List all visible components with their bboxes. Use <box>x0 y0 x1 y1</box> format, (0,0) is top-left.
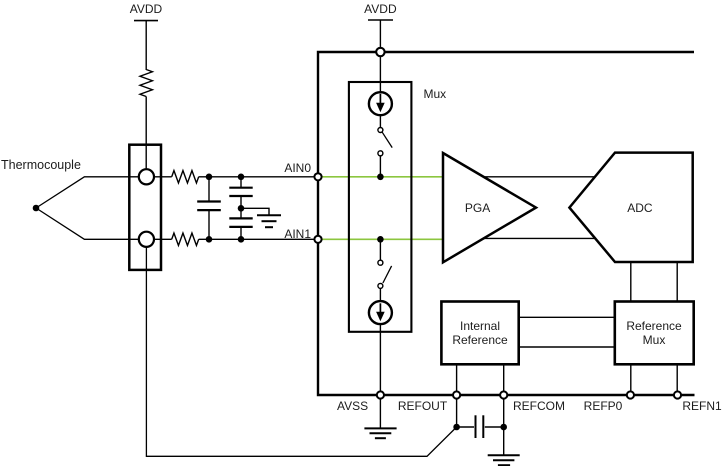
Reference Mux box U3 <box>615 302 694 365</box>
connector block J1 <box>129 145 161 270</box>
wire node to REFCOM pin <box>503 399 505 427</box>
label AIN0 <box>231 162 311 174</box>
power symbol AVDD (right) <box>368 19 393 21</box>
wire pin to current source I1 <box>379 56 381 94</box>
wire thermocouple lead - <box>36 208 140 239</box>
label PGA <box>418 202 538 214</box>
current source I2 <box>369 301 392 324</box>
wire mid node to ground G1 <box>241 208 269 215</box>
ground G1 <box>257 215 281 227</box>
node dot R2/C1 <box>206 174 213 181</box>
pin REFN1 <box>674 391 681 398</box>
wire R3 to pin AIN1 <box>199 238 316 240</box>
wire C4 to REFCOM node <box>485 426 504 428</box>
wire PGA to ADC (bottom) <box>483 237 596 239</box>
capacitor C4 <box>476 415 484 438</box>
node thermocouple junction <box>33 205 40 212</box>
pin AIN1 <box>314 236 321 243</box>
capacitor C3 (mid to AIN1) <box>229 208 252 239</box>
wire IntRef to RefMux (top) <box>519 316 615 318</box>
pin AVDD <box>376 48 384 56</box>
label Internal Reference <box>420 320 540 332</box>
wire IntRef to RefMux (bottom) <box>519 346 615 348</box>
resistor R3 <box>172 233 199 245</box>
label Reference Mux <box>594 320 714 332</box>
label AVSS <box>293 400 413 412</box>
ADC block <box>569 153 692 262</box>
node dot REFCOM/C4 <box>500 424 507 431</box>
wire terminal to R3 <box>154 238 172 240</box>
wire I2 to AVSS pin <box>379 324 381 395</box>
ground G3 <box>488 455 520 465</box>
label REFCOM <box>479 400 599 412</box>
label AVDD (left power) <box>86 3 206 15</box>
pin AIN0 <box>314 173 321 180</box>
node dot C3 bottom <box>238 236 245 243</box>
pin AVSS <box>377 391 384 398</box>
wire RefMux to REFN1 <box>676 364 678 395</box>
PGA amplifier triangle <box>443 153 536 262</box>
wire AVDD to resistor R1 <box>145 21 147 70</box>
chip outline (open right side) <box>318 52 695 395</box>
node dot AIN1/mux <box>377 236 384 243</box>
wire R1 to connector <box>145 97 147 171</box>
switch S1 <box>378 115 392 177</box>
wire R2 to pin AIN0 <box>199 176 316 178</box>
wire PGA to ADC (top) <box>483 176 596 178</box>
wire AVSS to ground G2 <box>379 399 381 429</box>
pin REFOUT <box>453 391 460 398</box>
label ADC <box>580 202 700 214</box>
label AIN1 <box>231 228 311 240</box>
wire IntRef to REFOUT <box>456 364 458 395</box>
capacitor C1 (differential) <box>197 177 221 240</box>
label REFN1 <box>642 400 722 412</box>
wire AVDD to pin <box>379 20 381 49</box>
wire ADC to Reference Mux (left) <box>630 262 632 302</box>
wire connector bottom return <box>146 247 456 456</box>
net AIN0 analog path (green) <box>322 176 444 178</box>
mux box <box>349 82 412 332</box>
net AIN1 analog path (green) <box>322 238 444 240</box>
current source I1 <box>369 92 392 115</box>
label REFP0 <box>543 400 663 412</box>
power symbol AVDD (left) <box>134 20 158 22</box>
wire ADC to Reference Mux (right) <box>676 262 678 302</box>
terminal circle (bottom) <box>139 232 154 247</box>
node dot REFOUT/C4 <box>453 424 460 431</box>
node dot R3/C1 <box>206 236 213 243</box>
wire dot to C4 <box>457 426 474 428</box>
wire IntRef to REFCOM <box>503 364 505 395</box>
wire node to ground G3 <box>503 427 505 455</box>
label REFOUT <box>363 400 483 412</box>
Internal Reference box U2 <box>441 302 518 365</box>
ground G2 <box>364 428 396 438</box>
node dot C2 top <box>238 174 245 181</box>
wire RefMux to REFP0 <box>630 364 632 395</box>
node dot AIN0/mux <box>377 174 384 181</box>
resistor R2 <box>172 171 199 183</box>
wire terminal to R2 <box>154 176 172 178</box>
label Mux <box>424 88 447 100</box>
label AVDD (right power) <box>320 3 440 15</box>
label Thermocouple <box>1 159 81 172</box>
terminal circle (top) <box>139 169 154 184</box>
resistor R1 (pull-up) <box>140 70 152 97</box>
capacitor C2 (AIN0 to mid) <box>229 177 252 209</box>
pin REFP0 <box>627 391 634 398</box>
switch S2 <box>378 239 392 300</box>
node dot C2/C3 mid <box>238 205 245 212</box>
wire REFOUT down <box>456 399 458 427</box>
pin REFCOM <box>500 391 507 398</box>
wire thermocouple lead + <box>36 177 140 208</box>
